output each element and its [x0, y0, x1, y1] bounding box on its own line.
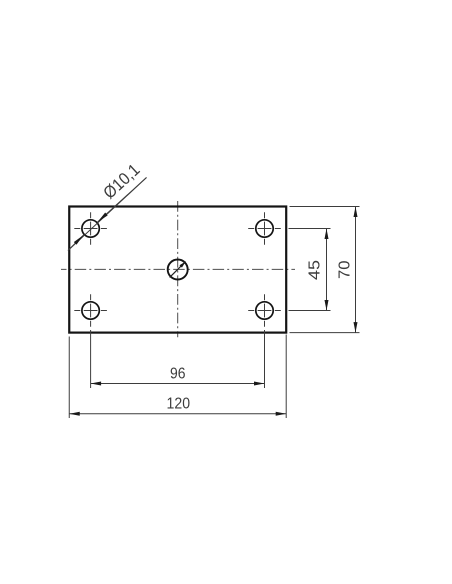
svg-text:45: 45	[307, 260, 324, 280]
svg-text:96: 96	[170, 366, 186, 383]
svg-text:70: 70	[337, 260, 354, 279]
svg-text:Ø10,1: Ø10,1	[100, 160, 144, 202]
svg-text:120: 120	[167, 396, 191, 413]
